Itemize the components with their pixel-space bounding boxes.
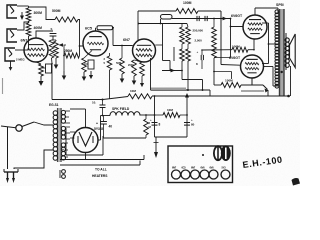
svg-text:500M: 500M — [52, 9, 61, 13]
box wire around rectifier — [66, 128, 103, 155]
resistor 250000 b — [186, 27, 202, 44]
wire y79 — [181, 70, 202, 90]
PT secondary HV — [61, 110, 65, 123]
filter block right — [186, 95, 188, 137]
volume pot element 2 — [52, 40, 59, 58]
wire x230 drop — [230, 18, 232, 58]
resistor long — [212, 18, 217, 85]
svg-text:300M: 300M — [34, 11, 43, 15]
V3 grid resistor — [116, 46, 124, 75]
wire B+ rail right — [152, 93, 290, 98]
svg-text:+: + — [191, 118, 193, 122]
label EH-100 — [242, 154, 283, 170]
svg-text:2,000: 2,000 — [195, 39, 203, 43]
wire V3 plate to top bus — [138, 11, 176, 40]
PT secondary 5V — [61, 126, 65, 139]
svg-text:40: 40 — [109, 125, 113, 129]
cap 0.1 drop — [92, 99, 106, 116]
OT secondary winding — [285, 38, 289, 67]
V2 cathode resistor — [82, 51, 94, 73]
corner artifact — [292, 178, 301, 186]
svg-text:+: + — [62, 148, 64, 152]
pilot dot — [202, 154, 204, 156]
svg-text:+: + — [96, 122, 98, 126]
V5 cathode bar — [241, 78, 269, 96]
label TO ALL HEATERS — [92, 168, 108, 179]
input jack J3 — [5, 48, 25, 62]
svg-text:2000: 2000 — [128, 63, 134, 67]
ground V3 grid — [120, 74, 125, 83]
wire V5 grid feed — [221, 64, 240, 67]
V4 cathode wire — [253, 39, 255, 51]
wire x174 — [173, 47, 175, 61]
resistor bias b — [186, 44, 191, 90]
svg-text:SPK FIELD: SPK FIELD — [112, 107, 130, 111]
OT core line 2 — [285, 33, 287, 70]
wire y71 — [214, 72, 232, 80]
svg-text:6N7: 6N7 — [123, 38, 130, 42]
OT primary winding — [275, 10, 279, 88]
wire to V2 grid — [79, 45, 84, 55]
wire J3 to V1 grid — [15, 49, 24, 51]
wire J2 to divider — [17, 22, 28, 30]
arrow line — [162, 69, 182, 73]
tube V1 6N7 — [21, 38, 49, 62]
filter block bottom — [155, 136, 188, 138]
tube V2 6C5 — [83, 27, 108, 57]
riser x160 — [160, 19, 162, 24]
power transformer core — [58, 108, 62, 162]
ground rail down — [51, 58, 53, 100]
svg-text:10.: 10. — [92, 101, 96, 105]
PT secondary 6V — [61, 143, 65, 160]
resistor bleeder 2M — [144, 115, 152, 138]
wire plug to switch — [1, 126, 16, 169]
junction dot OT — [281, 71, 283, 73]
screen dropper resistor — [104, 53, 112, 70]
wire heater bus — [60, 153, 144, 166]
V1 plate coupling cap — [36, 27, 56, 40]
left edge mark — [2, 78, 4, 94]
wire switch to transformer — [34, 122, 53, 125]
svg-text:HEATERS: HEATERS — [92, 174, 108, 178]
resistor 250M grid — [64, 49, 80, 58]
wire 500M to grid node — [78, 20, 80, 47]
filter cap 40 — [96, 116, 112, 139]
volume pot element — [49, 40, 54, 58]
choke SPK FIELD — [103, 107, 141, 116]
resistor 10M top — [128, 89, 152, 99]
coupling cap capsule — [161, 15, 173, 20]
winding hooks — [60, 170, 65, 179]
svg-text:6V6GT: 6V6GT — [229, 56, 241, 60]
svg-text:+: + — [150, 118, 152, 122]
resistor 300M — [26, 8, 42, 21]
filter cap 8 right — [184, 118, 195, 127]
V3 resistor aux — [140, 62, 145, 87]
input jack J2 — [7, 29, 17, 42]
AC plug — [4, 169, 18, 183]
ground J3 — [9, 61, 13, 71]
tube V4 6V6GT — [231, 14, 267, 39]
wire y57 — [214, 57, 231, 59]
V1 cathode resistor — [36, 62, 52, 76]
bus2 arrow — [223, 17, 228, 21]
resistor 400M — [26, 23, 42, 36]
svg-text:S: S — [51, 27, 53, 31]
svg-text:250,000: 250,000 — [193, 29, 204, 33]
wire 5V to 5Y3 top — [70, 109, 86, 128]
filter cap 8 left — [150, 118, 161, 127]
wire bottom mid bus — [151, 89, 211, 96]
wire choke out — [140, 114, 155, 116]
ground pot — [54, 58, 59, 69]
svg-text:+: + — [197, 50, 199, 54]
ground V2 cathode — [82, 71, 93, 81]
wire HV plates — [70, 132, 75, 138]
V4 plate wire — [255, 8, 278, 15]
svg-text:10M: 10M — [167, 108, 173, 112]
svg-text:EG-S1: EG-S1 — [49, 103, 59, 107]
svg-text:80: 80 — [191, 123, 195, 127]
wire divider bottom — [24, 36, 29, 50]
wire B- rail — [52, 97, 128, 100]
filter block left — [154, 95, 156, 137]
tube sockets layout — [172, 166, 231, 180]
wire left mid — [150, 58, 152, 90]
wire bus y23 — [138, 23, 188, 27]
electrolytic cap 8 — [196, 49, 203, 69]
wire B+ node — [98, 115, 110, 140]
ground V1 cathode — [38, 76, 43, 86]
wire speaker return — [290, 66, 292, 96]
PT primary winding — [53, 111, 58, 161]
wire to V3 grid — [112, 27, 133, 47]
wire top bus right — [198, 11, 221, 65]
pot wiper arrow — [59, 43, 67, 47]
input jack J1 — [7, 5, 17, 18]
output transformer core — [280, 9, 285, 96]
wire 100M mid — [202, 49, 232, 51]
tube V3 6N7 — [123, 38, 156, 62]
wire plug to primary — [14, 150, 54, 169]
svg-text:10M: 10M — [130, 89, 136, 93]
wire divider junction — [28, 21, 30, 23]
wiper ground — [62, 45, 67, 80]
plug arrow at J1 — [20, 12, 24, 20]
coupling cap C2 — [205, 16, 207, 21]
svg-text:SP5I: SP5I — [276, 3, 284, 7]
svg-text:6V6GT: 6V6GT — [231, 14, 243, 18]
label EG-S1 — [49, 103, 59, 107]
resistor 250000 — [180, 27, 204, 44]
label SP51 — [276, 3, 284, 7]
V5 plate wire — [264, 67, 279, 87]
coupling cap C1 — [197, 16, 199, 21]
resistor bias a — [180, 44, 185, 80]
svg-text:400M: 400M — [34, 26, 43, 30]
wire bus2 y18 — [172, 18, 231, 20]
svg-text:100M: 100M — [225, 79, 233, 83]
svg-text:100M: 100M — [183, 1, 192, 5]
wire cap40 bottom bus — [104, 137, 147, 139]
speaker cutout — [214, 146, 230, 160]
svg-text:2 MEG: 2 MEG — [16, 58, 25, 62]
tube V6 5Y3G — [73, 127, 104, 153]
V3 cathode resistor — [128, 60, 144, 76]
V2 plate coupling — [96, 26, 113, 31]
resistor 100M mid — [232, 45, 254, 53]
wire screen to rail — [109, 70, 111, 99]
resistor 100M low — [221, 79, 241, 88]
wire 100M low — [214, 84, 221, 86]
chassis layout box — [168, 146, 233, 183]
wire aux low — [241, 90, 264, 92]
chassis arrow — [154, 137, 159, 158]
svg-text:8: 8 — [159, 123, 161, 127]
resistor 10M bleed — [154, 108, 188, 118]
phase path — [155, 24, 170, 71]
resistor 500M — [29, 7, 78, 22]
speaker — [290, 34, 296, 68]
power switch — [16, 122, 34, 131]
svg-text:TO ALL: TO ALL — [95, 168, 107, 172]
wire V4 grid feed — [230, 26, 243, 28]
svg-text:6C5: 6C5 — [85, 27, 92, 31]
svg-text:50M: 50M — [116, 61, 122, 65]
label V5 — [229, 56, 241, 60]
PT taps — [62, 111, 70, 157]
ground V3 cathode — [132, 76, 137, 85]
screen bus wire — [262, 23, 278, 64]
tube V5 6V6GT — [241, 55, 264, 78]
svg-text:6N7: 6N7 — [21, 39, 28, 43]
svg-text:5Y3 G: 5Y3 G — [94, 127, 104, 131]
wire J1 to divider — [17, 6, 29, 8]
resistor 100M top — [176, 1, 198, 14]
